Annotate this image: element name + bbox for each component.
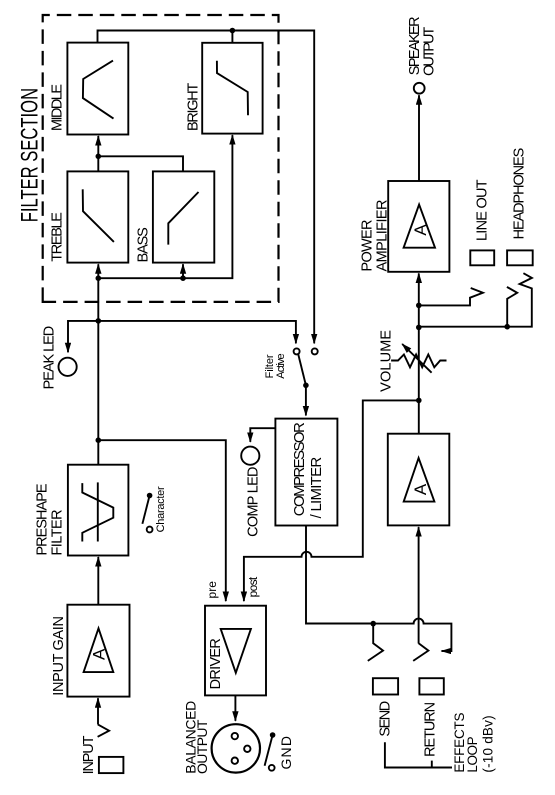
- amplifier block effects return: [388, 434, 450, 526]
- svg-text:FILTER: FILTER: [50, 509, 66, 555]
- wire power amp to speaker: [418, 95, 420, 181]
- wire driver to xlr: [234, 695, 236, 720]
- node line out tap: [416, 303, 422, 309]
- svg-text:BRIGHT: BRIGHT: [186, 83, 202, 131]
- svg-text:A: A: [411, 483, 430, 495]
- wire post branch to driver: [244, 400, 419, 601]
- wire compressor out to send: [306, 526, 373, 624]
- switch Filter Active: [294, 348, 318, 388]
- svg-text:COMP LED: COMP LED: [245, 467, 261, 537]
- svg-text:LOOP: LOOP: [465, 736, 480, 772]
- svg-text:VOLUME: VOLUME: [378, 330, 394, 392]
- wire to peak led: [68, 321, 98, 352]
- wire input to input gain: [97, 698, 99, 724]
- svg-text:SEND: SEND: [378, 701, 394, 737]
- wire bypass to filter active contact: [98, 321, 296, 344]
- svg-text:LINE OUT: LINE OUT: [475, 179, 491, 241]
- svg-text:POWER: POWER: [360, 220, 376, 272]
- svg-text:DRIVER: DRIVER: [208, 638, 224, 689]
- wire middle out to filter active contact: [98, 28, 315, 344]
- wire return to amp: [418, 527, 420, 643]
- node pre-tap: [96, 437, 102, 443]
- block DRIVER: [205, 606, 266, 696]
- jack socket RETURN: [419, 678, 443, 694]
- wire pre branch to driver: [98, 440, 226, 601]
- svg-text:/ LIMITER: / LIMITER: [308, 457, 325, 519]
- amplifier block INPUT GAIN: [67, 605, 129, 697]
- terminal SPEAKER OUTPUT: [414, 83, 425, 94]
- svg-text:INPUT: INPUT: [81, 735, 97, 774]
- jack socket SEND: [373, 678, 398, 694]
- jack SEND contact: [368, 624, 383, 661]
- filter block MIDDLE: [67, 43, 128, 135]
- filter block BRIGHT: [202, 43, 262, 134]
- svg-text:INPUT GAIN: INPUT GAIN: [51, 616, 67, 696]
- svg-text:RETURN: RETURN: [422, 702, 438, 757]
- node peak/bypass tap: [96, 318, 102, 324]
- svg-text:Active: Active: [275, 353, 287, 378]
- svg-text:MIDDLE: MIDDLE: [50, 84, 66, 131]
- label SPEAKER OUTPUT: [407, 16, 437, 75]
- node treble/bass sum: [96, 154, 102, 160]
- jack RETURN contact: [413, 643, 428, 661]
- jack HEADPHONES contact: [419, 273, 532, 329]
- svg-text:pre: pre: [205, 581, 219, 599]
- svg-text:PRESHAPE: PRESHAPE: [35, 483, 51, 555]
- svg-text:TREBLE: TREBLE: [50, 212, 66, 262]
- svg-text:post: post: [246, 576, 260, 597]
- svg-text:PEAK LED: PEAK LED: [42, 326, 58, 390]
- input jack J1: [98, 724, 124, 773]
- wire bass out riser: [98, 156, 183, 171]
- wire send normalled to return: [373, 619, 451, 651]
- svg-text:(-10 dBv): (-10 dBv): [481, 715, 496, 772]
- label Filter Active: [264, 353, 287, 378]
- connector BALANCED OUTPUT xlr: [212, 724, 260, 772]
- svg-text:BASS: BASS: [136, 227, 152, 262]
- dashed box FILTER SECTION: [43, 15, 279, 302]
- led COMP LED: [241, 447, 259, 465]
- label PRESHAPE FILTER: [35, 483, 66, 555]
- label EFFECTS LOOP (-10 dBv): [452, 713, 496, 773]
- filter block TREBLE: [67, 171, 128, 262]
- wire bass/bright feed bus: [98, 135, 232, 281]
- svg-text:Character: Character: [155, 486, 167, 532]
- wire input gain to preshape filter: [97, 557, 99, 605]
- wire preshape to treble (main line): [97, 264, 99, 465]
- switch Character: [142, 493, 152, 533]
- svg-text:COMPRESSOR: COMPRESSOR: [291, 422, 308, 516]
- jack socket HEADPHONES: [507, 250, 533, 265]
- svg-text:HEADPHONES: HEADPHONES: [511, 148, 527, 240]
- jack LINE OUT contact: [419, 288, 483, 305]
- svg-text:GND: GND: [278, 736, 294, 770]
- label BALANCED OUTPUT: [182, 701, 210, 774]
- jack socket LINE OUT: [470, 250, 494, 265]
- wire amp out to power amp: [418, 273, 420, 433]
- wire switch to compressor: [305, 385, 307, 415]
- node send tap: [370, 621, 376, 627]
- svg-text:A: A: [411, 224, 430, 236]
- node post tap: [416, 398, 422, 404]
- amplifier block POWER AMPLIFIER: [388, 181, 449, 272]
- wire to comp led: [250, 428, 275, 442]
- led PEAK LED: [59, 358, 77, 376]
- wire treble to middle: [97, 136, 99, 171]
- svg-text:A: A: [90, 648, 109, 660]
- label POWER AMPLIFIER: [360, 200, 391, 272]
- block PRESHAPE FILTER: [68, 465, 128, 556]
- block COMPRESSOR / LIMITER: [275, 419, 337, 526]
- svg-text:OUTPUT: OUTPUT: [422, 27, 438, 76]
- svg-text:Filter: Filter: [264, 354, 276, 378]
- svg-text:OUTPUT: OUTPUT: [194, 719, 210, 774]
- node headphones tap: [416, 325, 422, 331]
- svg-text:AMPLIFIER: AMPLIFIER: [375, 200, 391, 272]
- svg-text:FILTER SECTION: FILTER SECTION: [17, 88, 44, 222]
- bracket effects loop: [385, 742, 452, 767]
- potentiometer VOLUME: [391, 344, 446, 373]
- node filter distribution: [96, 275, 102, 281]
- switch GND: [265, 732, 276, 771]
- filter block BASS: [153, 171, 214, 262]
